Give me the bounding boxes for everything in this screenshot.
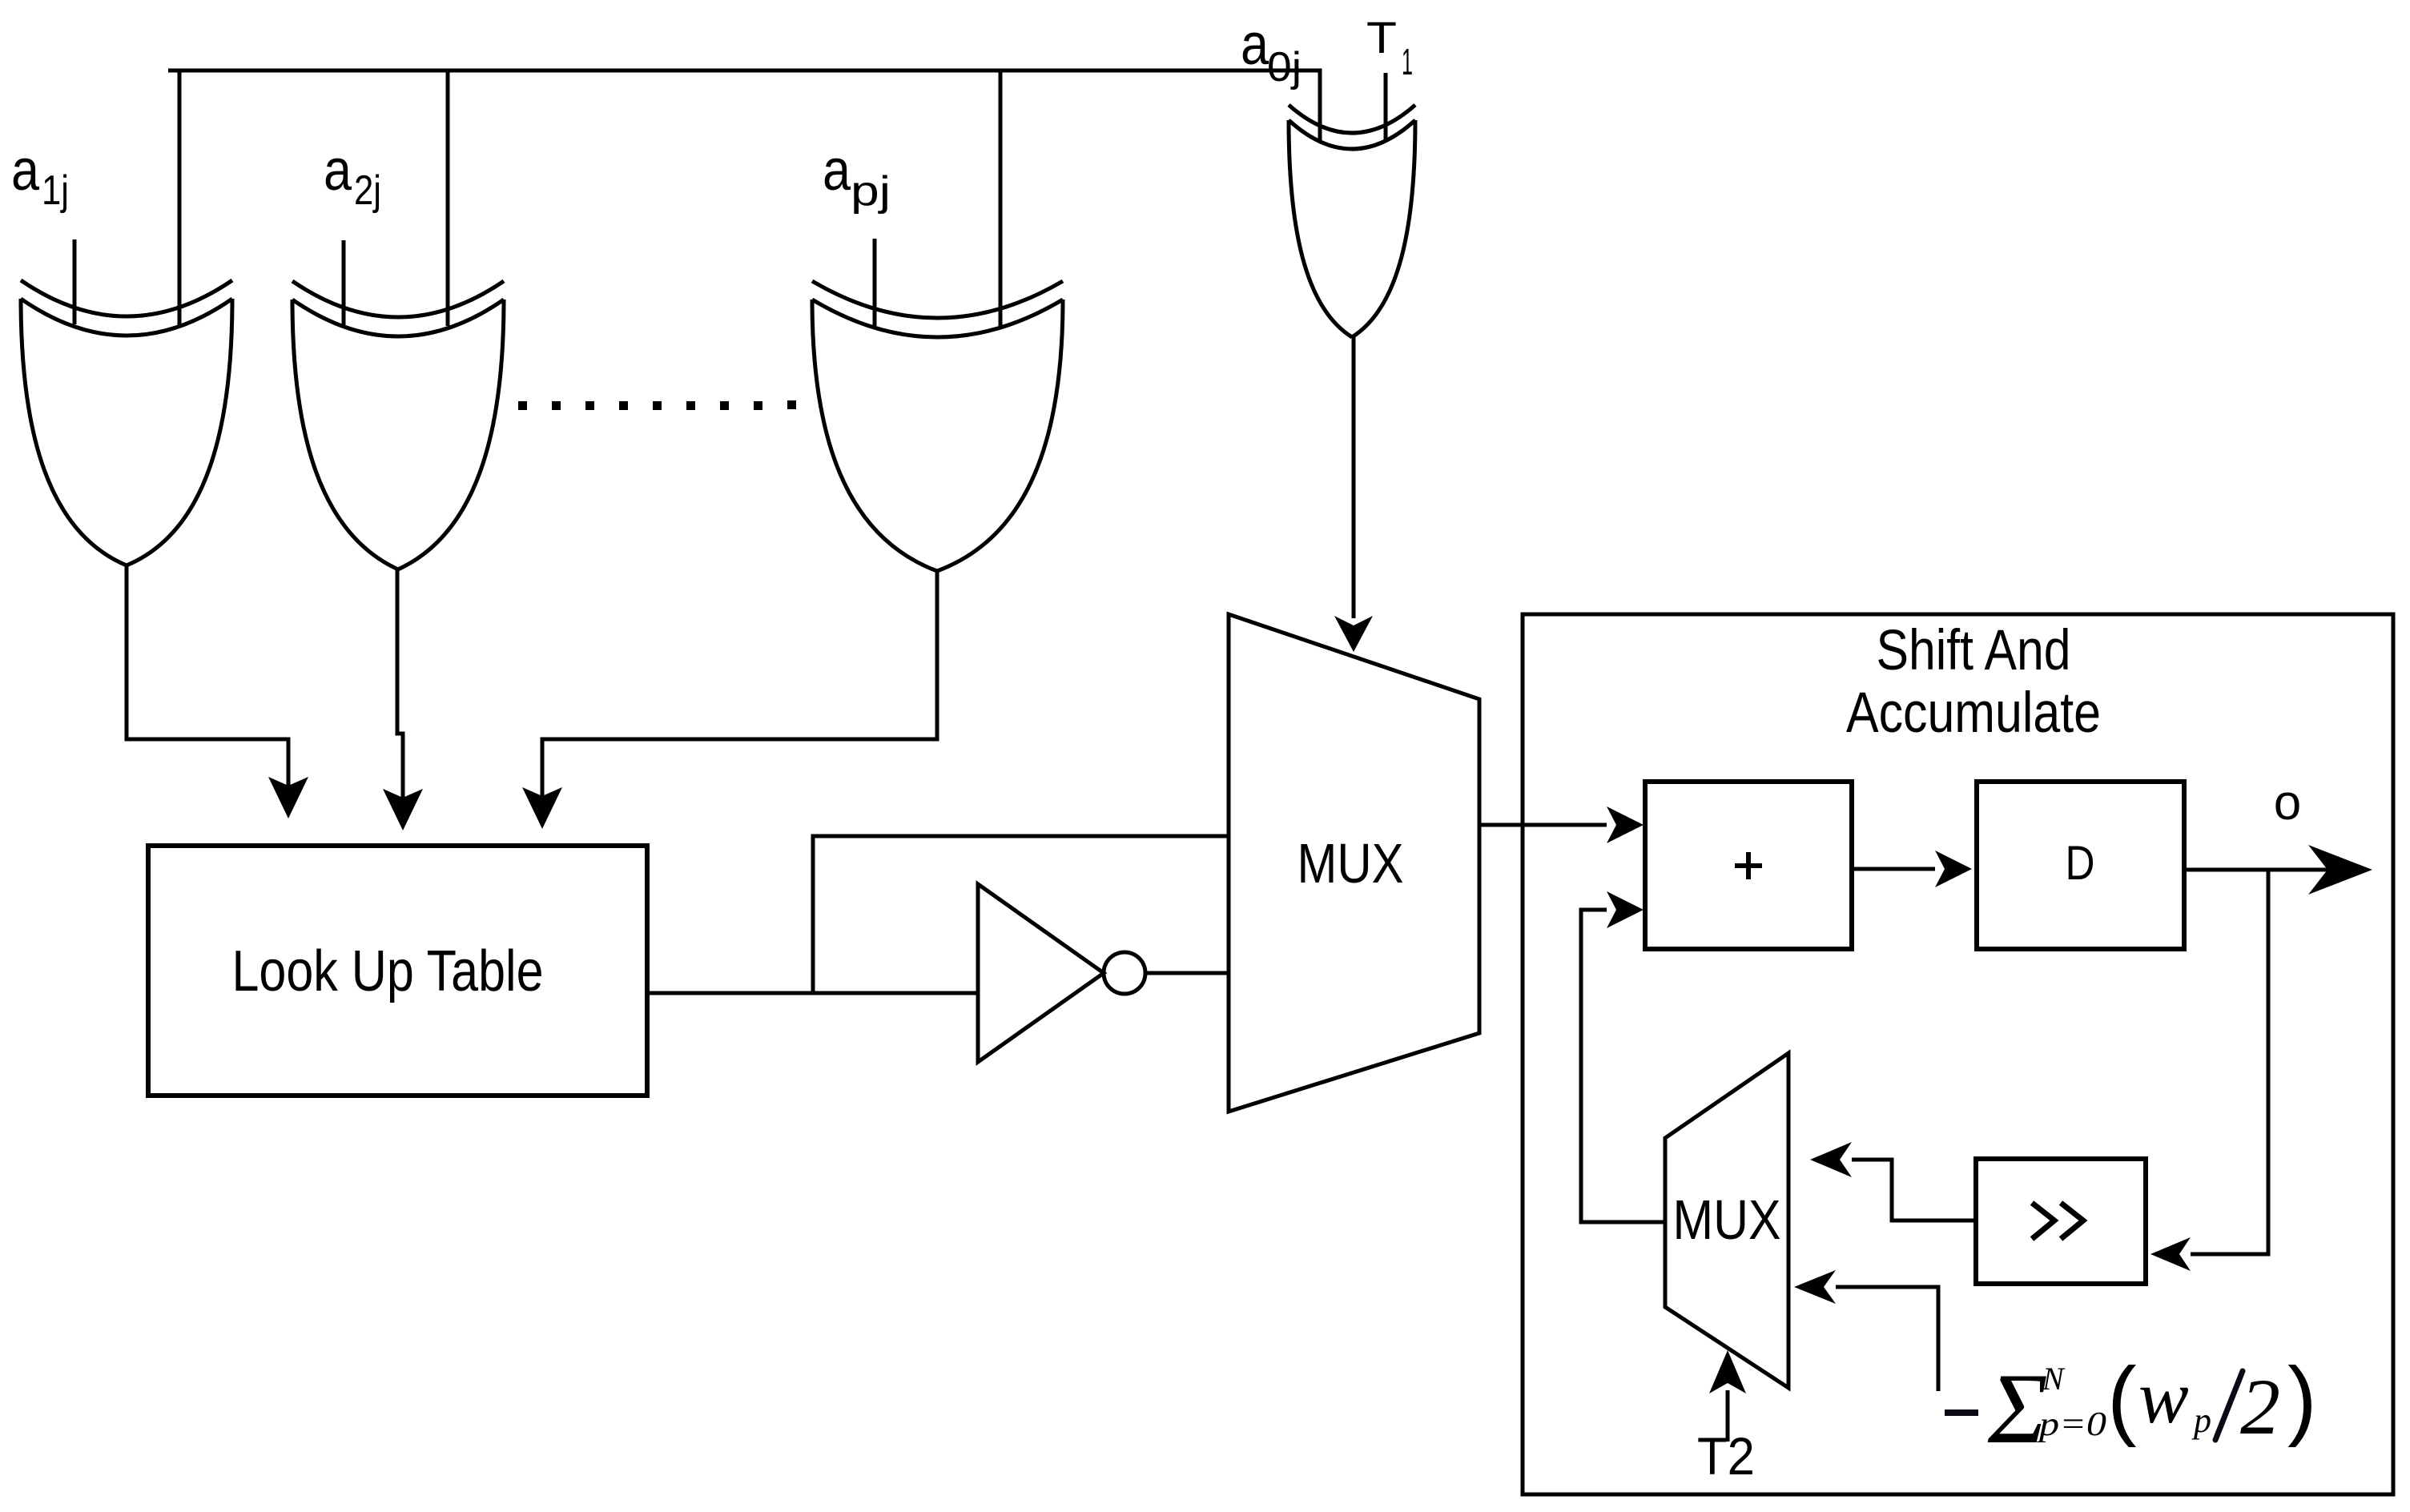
wire feedback from o node down to shifter [2191, 870, 2268, 1254]
svg-text:MUX: MUX [1298, 832, 1404, 895]
xor gate U1 [21, 280, 232, 565]
wire bus drop to xor U1 right input [178, 70, 182, 325]
svg-text:N: N [2042, 1361, 2066, 1397]
Look Up Table box [148, 846, 647, 1096]
svg-text:0j: 0j [1267, 44, 1302, 90]
wire bus drop to xor U3 right input [999, 70, 1003, 327]
svg-text:): ) [2287, 1349, 2317, 1448]
arrowhead output o [2308, 845, 2372, 895]
wire MUX output to adder [1479, 823, 1607, 827]
arrowhead into small mux input 1 [1810, 1142, 1852, 1177]
arrowhead into small mux input 2 [1794, 1270, 1836, 1304]
mux U7 trapezoid [1665, 1053, 1788, 1388]
xor gate U4 [1289, 105, 1415, 337]
adder box [1645, 782, 1852, 949]
svg-text:w: w [2138, 1356, 2189, 1439]
wire input stub apj [873, 239, 877, 326]
wire U3 output to LUT [542, 571, 937, 799]
Shift And Accumulate outer box [1523, 614, 2393, 1494]
arrowhead into adder input 1 [1607, 806, 1644, 843]
wire LUT output to inverter [647, 991, 978, 995]
arrowhead into LUT input 1 [268, 777, 308, 818]
wire T2 select arrow [1726, 1390, 1730, 1442]
wire D output to o [2184, 868, 2332, 872]
arrowhead into shifter right [2150, 1237, 2191, 1271]
wire U2 output to LUT [397, 569, 403, 801]
wire U4 output to MUX select [1352, 337, 1356, 618]
svg-text:Accumulate: Accumulate [1846, 682, 2101, 745]
wire top bus from node A to xor U4 left input [168, 70, 1320, 140]
inverter U5 bubble [1104, 952, 1145, 994]
svg-text:MUX: MUX [1673, 1188, 1781, 1251]
wire input stub T1 [1384, 73, 1388, 141]
svg-text:T2: T2 [1697, 1426, 1755, 1486]
label shift chevrons [2032, 1203, 2083, 1239]
ellipsis dots between U2 and U3 [518, 400, 796, 410]
svg-text:p: p [2191, 1401, 2211, 1440]
svg-text:p=0: p=0 [2036, 1406, 2106, 1443]
svg-text:1: 1 [1402, 41, 1413, 82]
wire inverter output to MUX input 2 [1145, 971, 1229, 975]
xor gate U2 [292, 281, 504, 569]
svg-text:o: o [2274, 775, 2301, 830]
wire adder output to D register [1852, 867, 1935, 871]
inverter U5 triangle [978, 884, 1104, 1062]
svg-text:1j: 1j [42, 167, 69, 214]
svg-text:2j: 2j [354, 167, 381, 214]
svg-text:a: a [11, 139, 40, 203]
arrowhead into LUT input 3 [522, 787, 562, 829]
mux U6 trapezoid [1229, 614, 1479, 1112]
wire bus drop to xor U2 right input [446, 70, 450, 326]
svg-text:(: ( [2107, 1349, 2137, 1448]
xor gate U3 [812, 281, 1063, 571]
wire input stub a2j [342, 240, 346, 325]
D register box [1977, 782, 2184, 949]
arrowhead into D register [1935, 850, 1972, 887]
svg-text:T: T [1366, 12, 1397, 62]
svg-text:Shift And: Shift And [1877, 619, 2071, 682]
wire LUT output branch to MUX input 1 [813, 836, 1229, 993]
svg-text:a: a [1241, 13, 1269, 77]
wire small mux output to adder input 2 [1581, 910, 1665, 1222]
arrowhead T2 into small mux [1709, 1350, 1746, 1393]
svg-text:Look Up Table: Look Up Table [232, 939, 544, 1003]
svg-text:a: a [324, 139, 352, 203]
wire U1 output to LUT [127, 565, 288, 789]
svg-text:2: 2 [2240, 1362, 2280, 1451]
plus sign [1735, 852, 1762, 879]
svg-text:pj: pj [851, 168, 891, 215]
svg-text:D: D [2066, 836, 2095, 890]
arrowhead into LUT input 2 [383, 789, 423, 830]
wire shifter output to small mux input 1 [1852, 1160, 1976, 1220]
arrowhead into adder input 2 [1607, 891, 1644, 928]
arrowhead into MUX top [1334, 616, 1373, 652]
wire formula constant to small mux input 2 [1836, 1287, 1938, 1391]
svg-text:a: a [823, 139, 851, 203]
shifter box [1976, 1159, 2146, 1284]
formula minus sum wp/2 [1945, 1349, 2317, 1465]
wire input stub a1j [73, 239, 77, 324]
